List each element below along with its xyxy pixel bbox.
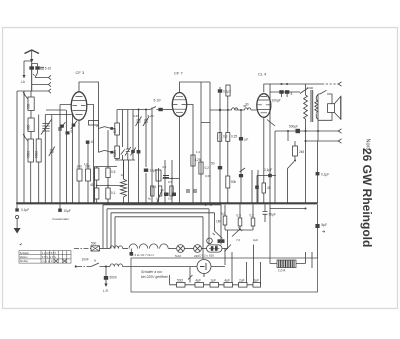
svg-text:4µF: 4µF [225,279,231,283]
resistor R21 [106,168,110,178]
tube V3 cathode [263,117,265,203]
mains wire 1 [74,248,91,250]
svg-text:0,3: 0,3 [223,135,228,139]
wire x270 down [269,204,271,263]
coil column wire [31,91,39,203]
svg-text:CL 4: CL 4 [258,72,267,77]
svg-text:a: a [94,259,96,263]
svg-text:CY 2 u 620: CY 2 u 620 [199,254,214,258]
svg-text:1,0 A: 1,0 A [278,269,286,273]
resistor row R16 [224,283,233,288]
output transformer secondary [315,100,318,113]
svg-text:2µF: 2µF [239,279,245,283]
resistor R5 [199,162,203,174]
grid switch S4 [150,107,158,110]
IF1 coil lower [115,146,120,159]
svg-text:CF 7: CF 7 [174,71,183,76]
tube V1 anode lead [79,82,99,153]
capacitor blob C6 [137,150,141,154]
svg-text:1,2: 1,2 [196,150,201,154]
svg-text:8µF: 8µF [322,223,328,227]
svg-text:0,2: 0,2 [205,166,210,170]
resistor R4 [191,155,195,166]
capacitor blob C14 [285,90,289,94]
IF1 coil upper [115,123,120,135]
tube V2 right lead [187,105,210,204]
svg-text:5x10: 5x10 [175,254,182,258]
capacitor antenna C2 [35,66,39,69]
resistor R22 [95,188,99,199]
svg-text:0,3: 0,3 [237,214,242,218]
svg-text:Fusskontakt: Fusskontakt [53,217,69,221]
svg-text:4µ: 4µ [148,197,151,201]
tuning gang plates T1 [41,115,52,204]
junction dots anode line [281,83,283,85]
svg-text:µF: µF [245,138,249,142]
switch arm antenna [33,73,38,78]
svg-text:5,0: 5,0 [221,212,226,216]
resistor R1 100 [77,169,82,181]
svg-text:0,1µF: 0,1µF [321,173,329,177]
capacitor blob C42 [239,174,243,177]
svg-text:bei 220V geöffnet: bei 220V geöffnet [141,275,169,279]
wire x227.8 [227,96,229,203]
speaker switch break [320,90,327,94]
svg-text:L.R: L.R [103,289,109,293]
svg-text:10µF: 10µF [64,209,71,213]
contact line 1 [35,75,51,79]
svg-text:2x: 2x [96,124,100,128]
resistor row R15 [210,283,219,288]
trimmer capacitor T2 [51,115,53,204]
svg-text:5·10⁴: 5·10⁴ [154,99,162,103]
svg-text:5000: 5000 [110,276,117,280]
svg-text:26 GW Rheingold: 26 GW Rheingold [360,148,374,247]
resistor R8b [226,176,230,188]
tube V3 bottom right lead [267,120,275,127]
switch S9 [225,245,232,252]
IF1 column wire [116,135,118,160]
nested feed line 3 [111,213,215,249]
capacitor C21 8uF [317,204,319,258]
capacitor C20 [263,204,268,222]
svg-text:50: 50 [211,162,215,166]
svg-text:5-25: 5-25 [148,114,154,118]
lamp LP1 [177,245,185,253]
svg-text:5·10: 5·10 [45,67,52,71]
switch tick2 [23,134,28,141]
transformer core [311,90,313,122]
switch S5 speaker [300,88,308,94]
arrow LA [23,75,26,79]
svg-text:1,0: 1,0 [84,162,89,166]
coil L3 5000 [28,139,33,162]
nested feed line 2 [107,209,209,249]
svg-text:7000: 7000 [307,86,314,90]
trimmer T4 [136,110,142,204]
svg-text:4,0: 4,0 [162,165,167,169]
svg-text:0,1: 0,1 [111,191,116,195]
svg-text:5000: 5000 [27,151,31,158]
mains wire 2 [77,266,91,268]
capacitor blob C9 [172,193,177,197]
speaker bottom drop [317,120,319,141]
switch S2a [99,127,115,129]
wires in enclosure [170,284,254,286]
svg-text:100µF: 100µF [272,99,281,103]
tone bus [225,230,253,249]
output transformer primary [304,84,308,131]
wire x241 [240,110,242,203]
columns 252-270 [252,170,258,203]
svg-text:0,1µF: 0,1µF [21,208,29,212]
trimmer T6b [132,110,134,161]
ground [14,228,21,234]
hang line y160 [115,159,135,161]
capacitor C18 to ground [16,204,18,208]
switch tick1 [23,92,28,99]
resistor R12b [251,218,255,226]
wires under tube1 [79,120,88,203]
svg-text:CF 3 LL CF 7 CH 1: CF 3 LL CF 7 CH 1 [130,253,154,257]
nested feed line 1 [103,205,221,249]
svg-text:0,5: 0,5 [168,180,173,184]
svg-text:50Ω: 50Ω [177,279,184,283]
resistor R24 [262,183,266,193]
resistor R9 [294,141,296,146]
speaker cone [334,96,340,119]
tube V1 CF3 [71,92,87,120]
line2 y141 [306,140,339,142]
coil L1 500 [28,97,34,111]
resistor R25 [89,121,99,126]
resistor R20 [95,168,99,180]
choke CH2 [110,264,123,267]
tone network feed [215,204,254,231]
switch S3 [121,110,125,161]
columns 152-172 [152,108,172,204]
capacitor blob C13 [279,90,283,94]
svg-text:0,25: 0,25 [205,174,211,178]
connector blobs [218,239,221,243]
switch Sb [188,267,193,283]
resistor R8c box on x220 [218,133,222,142]
left vertical wires [17,91,24,203]
resistor R6 [226,85,230,96]
svg-text:7,0: 7,0 [236,238,241,242]
resistor row R13 [177,283,186,288]
coil L2 600 [28,118,34,132]
svg-text:4µF: 4µF [196,279,202,283]
capacitor blob C22 [105,267,107,277]
svg-text:0,25: 0,25 [231,135,237,139]
capacitor blob C4b [86,141,90,144]
tube V3 anode lead [264,84,322,92]
capacitor antenna C1 [29,66,34,69]
svg-text:50k: 50k [231,180,237,184]
urdox U1 [207,245,223,252]
capacitor blob C5 [144,169,148,172]
cathode network CL4 [257,92,276,203]
wire x305 long [305,131,307,203]
resistor row R18 [253,283,261,288]
svg-text:K M L G T A: K M L G T A [42,255,56,259]
nested feed line 4 [115,217,203,259]
capacitor C4 blob [66,131,70,134]
line1 y131 [275,130,339,132]
antenna [25,50,40,54]
svg-text:5000: 5000 [35,151,39,158]
svg-text:10nF: 10nF [82,257,89,261]
resistor R11 [238,218,242,226]
main ground bus [17,202,318,204]
svg-text:0,5: 0,5 [111,170,116,174]
coil zigzag L4 [121,160,127,203]
wire y178.5 [163,178,180,180]
svg-text:5000: 5000 [113,150,117,157]
trimmer T3a [60,125,64,128]
switch S8 [213,231,223,239]
switch tick S41 [240,168,246,172]
table Spannungswahl [19,251,71,264]
junction dots [305,130,307,132]
svg-text:5: 5 [291,92,293,96]
svg-text:10: 10 [121,173,125,177]
antenna column down [31,64,33,92]
svg-text:Schalter: Schalter [20,252,29,255]
contact line 2 [32,82,51,86]
svg-text:2µF: 2µF [253,238,258,242]
tube V1 grid lead [60,105,94,204]
svg-text:220: 220 [194,254,199,258]
svg-text:1 2 3 4 5 6 7: 1 2 3 4 5 6 7 [42,251,57,255]
resistor R8a [226,133,230,142]
resistor row R17 [239,283,248,288]
trimmer T6 [125,110,131,161]
choke CH1 [110,246,123,249]
resistor row R14 [195,283,204,288]
tube V2 CF7 [172,93,186,117]
trimmer T5 [143,110,149,204]
tube V3 CL4 [257,94,271,118]
antenna arrow [30,59,33,63]
wire x210 [209,82,211,203]
svg-text:5-25: 5-25 [133,114,139,118]
capacitor blob C12 [218,166,222,169]
svg-text:500µF: 500µF [289,125,298,129]
svg-text:500: 500 [91,242,97,246]
switch S2b [99,150,115,152]
switch Sa [91,263,104,267]
resistor R10 [223,216,227,225]
decoupling network wires [95,167,123,204]
speaker magnet [328,104,335,113]
svg-text:Schalter a nur: Schalter a nur [141,270,163,274]
wire x201 [200,82,202,203]
trimmer capacitor T2b [49,147,55,157]
terminal arrow A3 [338,139,341,143]
jack circle [207,238,213,244]
small caps near bus [186,190,197,192]
contact line 3 [17,89,51,93]
svg-text:5: 5 [71,130,73,134]
svg-text:0,1: 0,1 [156,197,160,201]
grid line CL4 [210,109,257,111]
gang verticals [60,105,73,204]
capacitor C3 [58,128,62,130]
wire x288 [287,131,289,141]
svg-text:CF 3: CF 3 [76,70,85,75]
arrow LR [104,284,107,288]
capacitor blob C41 [239,137,243,141]
svg-text:0,5: 0,5 [168,197,172,201]
mains terminal P2 [75,265,77,267]
tube V2 cathode [179,117,181,204]
coil core line [128,160,130,203]
svg-text:500: 500 [27,103,31,109]
svg-text:600: 600 [27,124,31,130]
svg-text:1µF: 1µF [211,279,217,283]
heater chain CF3 LL CF7 CH1 [130,252,134,256]
potentiometer P2 [232,228,242,237]
capacitor blob C8 [164,193,169,197]
terminal arrow A2 [338,129,341,133]
choke CH3 [232,108,238,110]
capacitor blob C17 [317,141,319,203]
resistor R23 [106,188,110,199]
choke CH4 [245,108,251,110]
capacitor C7 [163,176,169,178]
resistor R3 [156,170,161,181]
capacitor blob C15 [296,129,301,133]
junction dots line1 [205,204,207,206]
svg-text:0,2: 0,2 [250,214,255,218]
gang frame top [45,110,72,115]
capacitor blob C11 [218,89,222,92]
wire antenna junction [24,61,32,91]
svg-text:4,25: 4,25 [195,158,201,162]
svg-text:45: 45 [267,186,271,190]
svg-text:2k5: 2k5 [299,150,304,154]
power enclosure box [131,258,318,292]
potentiometer P1 [157,190,164,203]
wire y208.5 [270,208,306,210]
svg-text:Wellen: Wellen [20,256,28,259]
resistor R2 300 [86,169,91,181]
bus-row resistor boxes [151,186,154,196]
rectifier tube CY2 [197,260,211,274]
svg-text:1M: 1M [216,220,221,224]
speaker LS loop [318,94,332,120]
resistor R12 500 [91,246,100,251]
trimmer T3b [72,124,76,127]
lamp LP2 [194,245,202,253]
comb resistor [277,260,296,268]
svg-text:I II X III R: I II X III R [42,259,53,263]
capacitor C19 [59,204,61,208]
tube V2 anode lead [180,82,211,93]
svg-text:30: 30 [243,104,247,108]
svg-text:Drehko: Drehko [20,260,29,263]
value labels scattered [84,86,314,258]
junction dots grid line [219,109,221,111]
grid line IF1 [117,110,150,124]
screen line y92 [270,84,300,92]
junction dots on bus [16,202,289,204]
switch S6 [288,162,295,204]
tick above table [20,244,22,245]
wire x108 [107,130,109,167]
terminal arrow A1 [338,82,341,86]
svg-text:0,1µF: 0,1µF [264,168,272,172]
svg-text:2µF: 2µF [254,279,260,283]
wire to C2 [32,64,38,67]
capacitor blob C10 [158,108,162,111]
